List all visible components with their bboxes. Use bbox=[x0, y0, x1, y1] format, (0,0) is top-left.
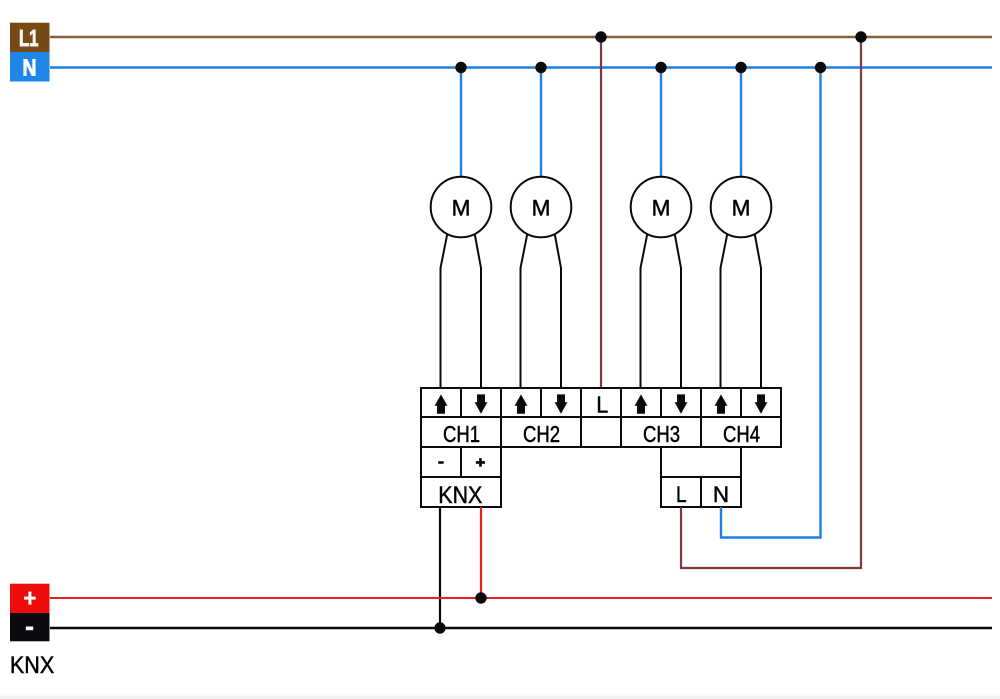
wire M1 up-phase bbox=[441, 234, 448, 389]
terminal mains L cell bbox=[661, 477, 701, 507]
svg-text:M: M bbox=[532, 195, 551, 220]
junction dot blue M1 bbox=[455, 62, 466, 73]
junction dot brown L feed bbox=[595, 31, 606, 42]
wire L feed to terminal L (dark red vertical) bbox=[600, 37, 602, 388]
pin arrow down CH2 bbox=[555, 394, 568, 413]
wire motor4 N drop (blue) bbox=[740, 68, 742, 179]
svg-text:M: M bbox=[652, 195, 671, 220]
motor M1 bbox=[431, 177, 492, 238]
wire motor3 N drop (blue) bbox=[660, 68, 662, 179]
wire mains L return (dark red) bbox=[681, 37, 861, 568]
wire KNX+ bus (red horizontal) bbox=[50, 597, 992, 599]
svg-text:M: M bbox=[452, 195, 471, 220]
wire N bus (blue horizontal) bbox=[50, 66, 992, 68]
terminal block row1 cells bbox=[421, 388, 781, 417]
motor M4 bbox=[711, 177, 772, 238]
pin arrow up CH3 bbox=[635, 394, 648, 413]
pin arrow down CH1 bbox=[475, 394, 488, 413]
label minus bbox=[438, 461, 443, 464]
junction dot black KNX minus bbox=[434, 622, 445, 633]
junction dot blue M2 bbox=[535, 62, 546, 73]
svg-text:L: L bbox=[596, 392, 608, 418]
wire M4 down-phase bbox=[755, 234, 761, 389]
pin arrow down CH3 bbox=[675, 394, 688, 413]
wire motor2 N drop (blue) bbox=[540, 68, 542, 179]
junction dot brown L return bbox=[855, 31, 866, 42]
label plus bbox=[476, 458, 485, 467]
wire M4 up-phase bbox=[721, 234, 728, 389]
terminal block row2 channel cells bbox=[421, 417, 781, 447]
bottom edge strip bbox=[0, 695, 1000, 696]
svg-text:CH4: CH4 bbox=[723, 421, 760, 447]
pin arrow down CH4 bbox=[755, 394, 768, 413]
terminal mains N cell bbox=[701, 477, 741, 507]
wire KNX plus (red vertical) bbox=[480, 507, 482, 598]
junction dot blue M3 bbox=[655, 62, 666, 73]
wire mains N return (blue) bbox=[721, 68, 821, 538]
node KNX plus terminal box bbox=[10, 584, 50, 613]
svg-text:CH2: CH2 bbox=[523, 421, 560, 447]
wire L1 bus (brown horizontal) bbox=[50, 36, 992, 38]
junction dot red KNX plus bbox=[475, 592, 486, 603]
wire M1 down-phase bbox=[475, 234, 481, 389]
svg-text:N: N bbox=[713, 482, 729, 507]
pin arrow up CH1 bbox=[435, 394, 448, 413]
terminal knx plus cell bbox=[461, 447, 501, 477]
terminal mains empty cell bbox=[661, 447, 741, 477]
wire KNX- bus (black horizontal) bbox=[50, 627, 992, 629]
svg-text:CH3: CH3 bbox=[643, 421, 680, 447]
wire KNX minus (black vertical) bbox=[439, 507, 441, 628]
wire M3 down-phase bbox=[675, 234, 681, 389]
svg-text:N: N bbox=[23, 55, 37, 81]
pin arrow up CH2 bbox=[515, 394, 528, 413]
svg-text:L: L bbox=[676, 482, 687, 507]
wire M2 down-phase bbox=[555, 234, 561, 389]
svg-text:CH1: CH1 bbox=[443, 421, 480, 447]
junction dot blue N return bbox=[815, 62, 826, 73]
svg-text:L1: L1 bbox=[19, 25, 39, 51]
node N terminal box bbox=[10, 52, 50, 82]
svg-text:M: M bbox=[732, 195, 751, 220]
terminal knx minus cell bbox=[421, 447, 461, 477]
wire motor1 N drop (blue) bbox=[460, 68, 462, 179]
node L1 terminal box bbox=[10, 23, 50, 52]
terminal KNX cell bbox=[421, 477, 501, 507]
wire M3 up-phase bbox=[641, 234, 648, 389]
pin arrow up CH4 bbox=[715, 394, 728, 413]
node KNX minus terminal box bbox=[10, 613, 50, 641]
motor M2 bbox=[511, 177, 572, 238]
junction dot blue M4 bbox=[735, 62, 746, 73]
wire M2 up-phase bbox=[521, 234, 528, 389]
motor M3 bbox=[631, 177, 692, 238]
svg-text:KNX: KNX bbox=[10, 652, 54, 679]
svg-text:KNX: KNX bbox=[438, 482, 482, 509]
